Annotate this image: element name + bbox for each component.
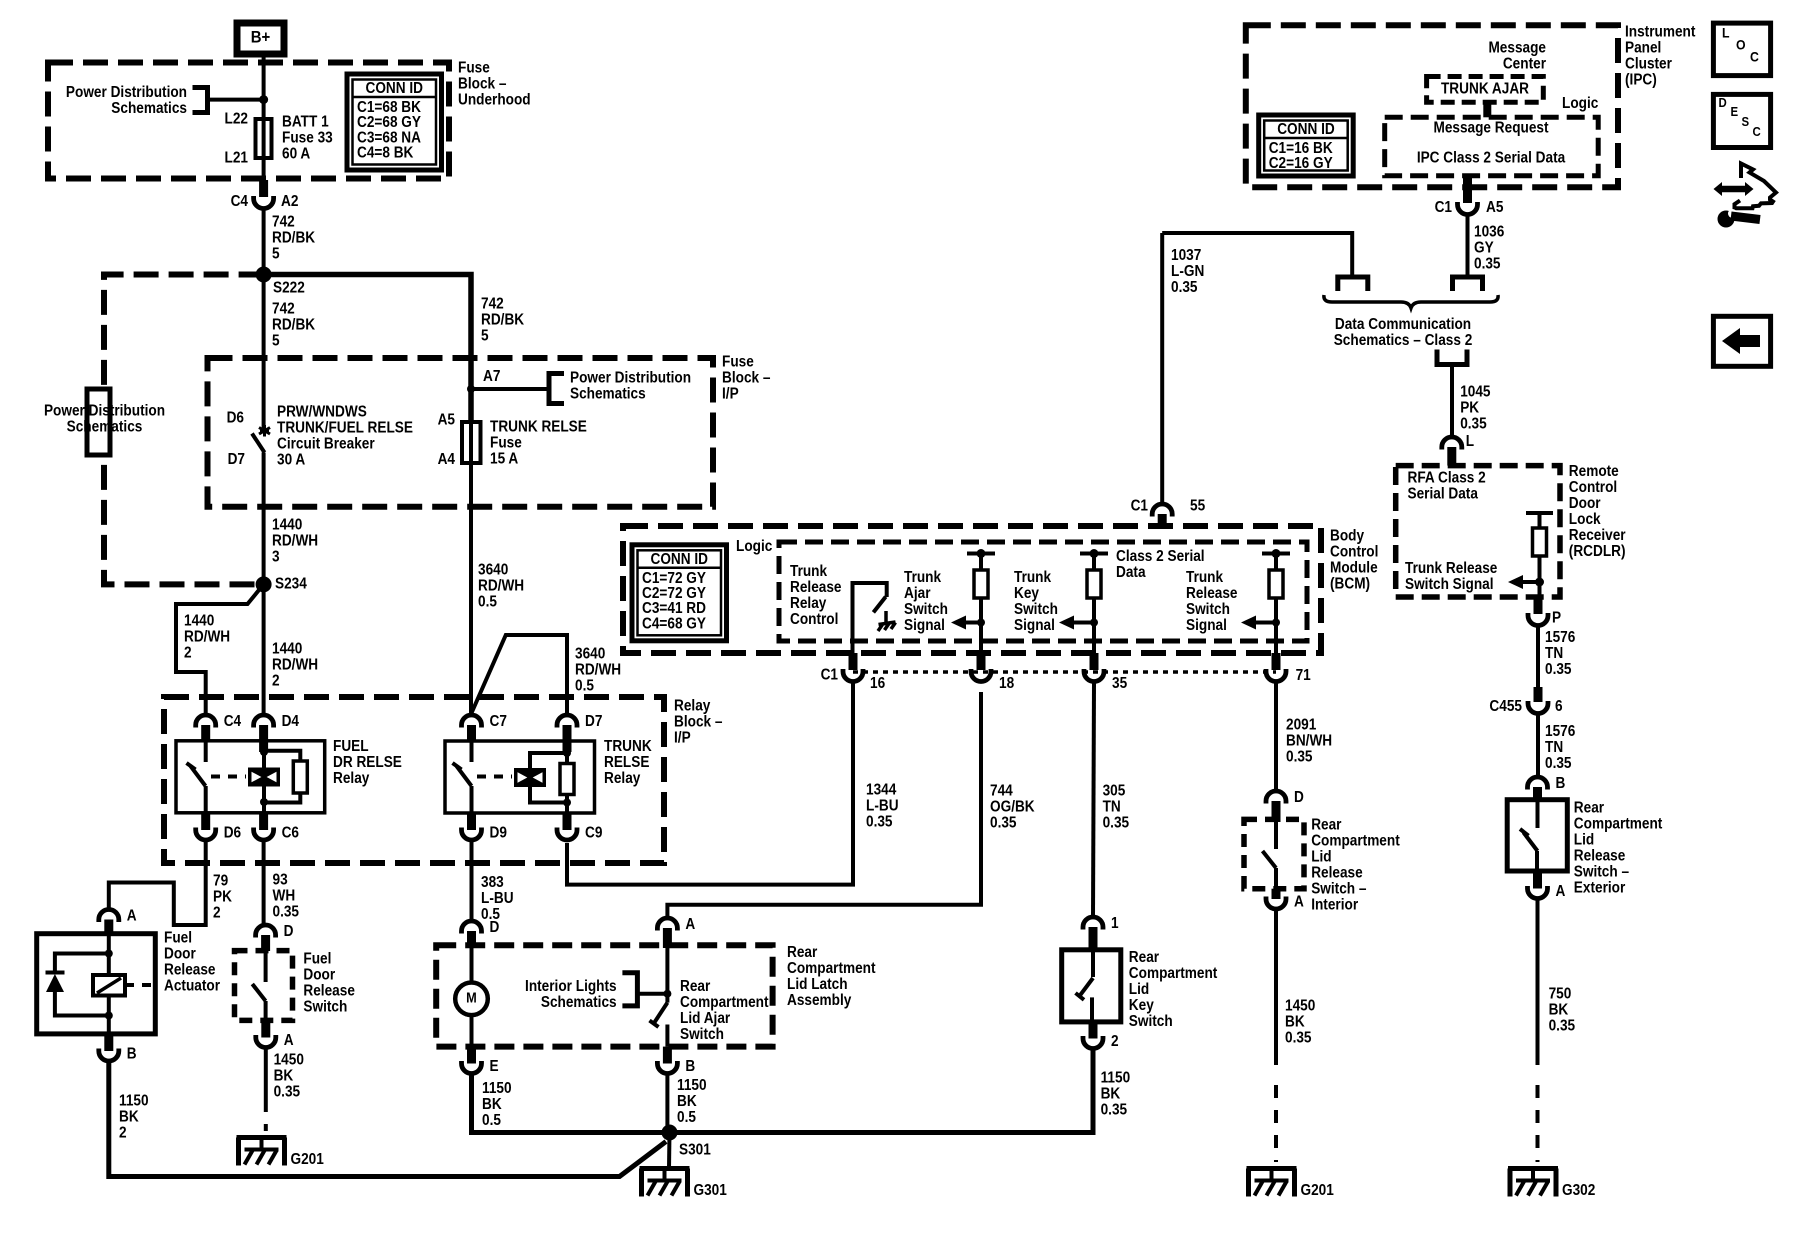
svg-text:CONN ID: CONN ID	[365, 80, 423, 97]
svg-text:L22: L22	[225, 111, 248, 128]
svg-text:B: B	[127, 1046, 137, 1063]
CONN ID table (underhood)	[347, 74, 442, 170]
wire 1576 TN to exterior switch	[1536, 715, 1540, 777]
svg-text:C6: C6	[282, 825, 299, 842]
svg-text:A: A	[685, 916, 695, 933]
svg-text:CONN ID: CONN ID	[1277, 121, 1335, 138]
svg-text:6: 6	[1555, 698, 1563, 715]
svg-text:B: B	[1556, 775, 1566, 792]
svg-text:B+: B+	[251, 29, 271, 47]
svg-text:S222: S222	[273, 280, 305, 297]
svg-text:S301: S301	[679, 1142, 711, 1159]
svg-text:IPC Class 2 Serial Data: IPC Class 2 Serial Data	[1417, 150, 1566, 167]
wire S234 to fuel relay D4	[262, 584, 266, 714]
power distribution schematics dashed outline (left)	[104, 275, 264, 585]
wire 1037 L-GN to data bus	[1162, 233, 1352, 276]
fuse block - underhood dashed box	[48, 63, 449, 179]
svg-text:C: C	[1750, 49, 1759, 65]
ground G201 (interior switch)	[1247, 1166, 1297, 1171]
class 2 bus T-bar pin 71	[1262, 552, 1290, 556]
svg-text:71: 71	[1296, 667, 1311, 684]
BCM top connector C1 pin 55	[1160, 233, 1164, 503]
wire A7 to power distribution bracket	[471, 387, 549, 391]
svg-text:A5: A5	[438, 412, 455, 429]
svg-text:E: E	[1731, 104, 1739, 119]
svg-text:D6: D6	[224, 825, 241, 842]
wire 93 WH relay C6 to switch D	[262, 841, 266, 924]
svg-text:C7: C7	[490, 713, 507, 730]
bracket power distribution schematics (I/P)	[549, 374, 564, 404]
IPC logic dashed box	[1385, 117, 1599, 175]
svg-text:G201: G201	[291, 1151, 324, 1168]
fuse BATT 1 Fuse 33 60 A	[262, 119, 266, 158]
connector C1 pins 16/18/35/71	[853, 670, 1276, 674]
wire 305 TN BCM 35 to key switch	[1093, 683, 1094, 916]
svg-text:M: M	[466, 990, 477, 1006]
svg-text:S234: S234	[275, 576, 308, 593]
remote control door lock receiver dashed box	[1396, 466, 1560, 597]
arrow trunk release switch signal	[1241, 616, 1256, 630]
CONN ID table (BCM)	[632, 545, 727, 641]
svg-text:A4: A4	[438, 451, 456, 468]
svg-text:2: 2	[1111, 1033, 1119, 1050]
svg-text:C2=16 GY: C2=16 GY	[1269, 155, 1333, 172]
RCDLR connector pin L	[1442, 437, 1462, 450]
wire 750 BK to G302	[1536, 900, 1540, 1066]
wire 79 PK relay D6 to actuator A	[109, 841, 206, 925]
off-page terminal (1036)	[1453, 277, 1483, 291]
ground G302	[1508, 1166, 1558, 1171]
relay block I/P dashed box	[164, 697, 664, 863]
svg-text:16: 16	[870, 675, 885, 692]
power terminal B+	[237, 23, 284, 54]
svg-text:35: 35	[1112, 675, 1127, 692]
fuse TRUNK RELSE 15 A	[469, 422, 473, 463]
wire 742 RD/BK to S222	[262, 210, 266, 275]
fuel door release switch	[256, 925, 276, 938]
fuse block I/P dashed box	[208, 358, 714, 507]
svg-text:G201: G201	[1301, 1182, 1334, 1199]
message center TRUNK AJAR box	[1427, 77, 1544, 103]
svg-text:Data CommunicationSchematics –: Data CommunicationSchematics – Class 2	[1334, 316, 1473, 349]
junction A7	[467, 385, 475, 393]
rear compartment lid release switch - interior	[1266, 791, 1286, 804]
wire branch to trunk relay D7	[472, 635, 568, 714]
svg-text:Message Request: Message Request	[1433, 120, 1548, 137]
svg-text:C4: C4	[231, 193, 249, 210]
svg-text:TRUNK AJAR: TRUNK AJAR	[1441, 81, 1529, 98]
svg-text:C9: C9	[585, 825, 602, 842]
instrument panel cluster dashed box	[1246, 25, 1618, 187]
svg-text:C1: C1	[1435, 199, 1452, 216]
splice S222	[256, 267, 272, 283]
latch ajar switch connector A	[657, 918, 677, 931]
RCDLR internal resistor	[1526, 511, 1553, 515]
wire 1576 TN to C455	[1536, 627, 1540, 688]
svg-text:A: A	[284, 1032, 294, 1049]
wire message center to logic	[1483, 102, 1491, 117]
svg-text:L: L	[1466, 433, 1474, 450]
icon back arrow box	[1713, 316, 1770, 366]
resistor pin 35	[1092, 554, 1096, 571]
svg-text:L: L	[1722, 25, 1730, 41]
wire 383 L-BU trunk relay D9 to latch D	[470, 841, 474, 920]
wire 1450 BK to G201 (interior)	[1274, 910, 1278, 1065]
brace data communication	[1324, 295, 1498, 308]
wire 1150 BK ajar switch B to S301	[665, 1075, 669, 1133]
svg-text:P: P	[1552, 610, 1561, 627]
svg-text:S: S	[1742, 114, 1750, 129]
svg-text:D9: D9	[490, 825, 507, 842]
icon LOC box	[1713, 23, 1770, 76]
svg-text:L21: L21	[225, 150, 248, 167]
icon DESC box	[1713, 94, 1770, 147]
wire 1440 RD/WH to S234	[262, 507, 266, 585]
wire S234 branch to fuel relay C4	[176, 584, 264, 714]
wire 2091 BN/WH BCM 71 to interior switch	[1274, 683, 1278, 790]
svg-text:A5: A5	[1486, 199, 1503, 216]
svg-text:A7: A7	[483, 368, 500, 385]
body control module dashed box	[623, 526, 1321, 653]
svg-text:D: D	[1719, 95, 1727, 110]
svg-text:G302: G302	[1562, 1182, 1595, 1199]
splice S234	[256, 576, 272, 592]
svg-text:D4: D4	[282, 713, 300, 730]
wire bracket to B+ feed	[208, 98, 264, 102]
svg-text:D: D	[284, 923, 294, 940]
off-page terminal (1037)	[1338, 277, 1368, 291]
svg-text:A: A	[127, 908, 137, 925]
splice S301	[662, 1125, 678, 1141]
fuel door release actuator	[99, 910, 119, 922]
class 2 bus T-bar pin 35	[1080, 552, 1108, 556]
svg-text:18: 18	[999, 675, 1014, 692]
svg-text:A: A	[1556, 883, 1566, 900]
arrow trunk key switch signal	[1059, 616, 1074, 630]
svg-text:Logic: Logic	[736, 538, 772, 555]
svg-text:C1: C1	[821, 667, 838, 684]
wire 744 OG/BK BCM 18 to latch A	[667, 692, 981, 917]
wire 1036 GY to data bus	[1466, 216, 1470, 278]
rear compartment lid key switch	[1083, 917, 1103, 930]
svg-text:A: A	[1294, 894, 1304, 911]
component on power distribution branch	[87, 389, 110, 455]
svg-text:D: D	[490, 919, 500, 936]
resistor pin 18	[979, 554, 983, 571]
latch assembly dashed box	[436, 945, 772, 1046]
svg-text:C455: C455	[1489, 698, 1522, 715]
svg-text:C1: C1	[1131, 498, 1148, 515]
wire B+ to fuse block	[262, 54, 266, 119]
svg-text:G301: G301	[694, 1182, 727, 1199]
connector C455 pin 6	[1534, 687, 1543, 702]
latch motor M	[470, 948, 474, 983]
svg-text:CONN ID: CONN ID	[650, 551, 708, 568]
class 2 bus T-bar pin 18	[967, 552, 995, 556]
wire 1450 BK to G201	[264, 1049, 268, 1113]
svg-text:O: O	[1736, 37, 1746, 53]
CONN ID table (IPC)	[1259, 115, 1354, 176]
wire 3640 RD/WH fuse to trunk relay C7	[469, 463, 473, 714]
ground G301	[640, 1166, 690, 1171]
svg-text:B: B	[685, 1058, 695, 1075]
RCDLR connector pin P	[1534, 597, 1543, 614]
wire fuse to connector C4/A2	[262, 158, 266, 180]
IPC connector C1 pin A5	[1463, 176, 1472, 203]
junction on B+ feed	[259, 95, 268, 104]
latch motor connector D	[462, 921, 482, 934]
svg-text:Trunk ReleaseSwitch Signal: Trunk ReleaseSwitch Signal	[1405, 560, 1497, 593]
svg-text:55: 55	[1190, 498, 1205, 515]
svg-text:A2: A2	[281, 193, 298, 210]
relay FUEL DR RELSE	[196, 715, 216, 728]
rear compartment lid release switch - exterior	[1528, 777, 1548, 789]
svg-text:C: C	[1753, 124, 1761, 139]
wire 1150 BK to S301	[109, 1062, 666, 1177]
svg-text:D: D	[1294, 789, 1304, 806]
wire 1150 BK key switch to S301	[670, 1050, 1094, 1133]
wire 1150 BK latch E to S301	[472, 1075, 670, 1133]
connector C4/A2	[259, 180, 268, 197]
svg-text:D7: D7	[228, 451, 245, 468]
resistor pin 71	[1274, 554, 1278, 571]
rear compartment lid ajar switch	[665, 948, 669, 1003]
wire 1045 PK to RCDLR	[1450, 365, 1454, 437]
svg-text:E: E	[490, 1058, 499, 1075]
off-page terminal to RCDLR	[1437, 350, 1467, 365]
bracket to power distribution schematics	[193, 88, 208, 113]
wire 1344 L-BU BCM 16 to trunk relay C9	[567, 683, 853, 885]
svg-text:D6: D6	[227, 410, 244, 427]
relay TRUNK RELSE	[462, 715, 482, 728]
svg-text:C4: C4	[224, 713, 242, 730]
wire S222 to trunk fuse feed	[264, 275, 471, 423]
wire S301 to G301	[667, 1133, 672, 1169]
ground G201 (fuel door switch)	[237, 1135, 287, 1140]
circuit breaker PRW/WNDWS 30 A	[262, 275, 266, 429]
svg-text:Logic: Logic	[1562, 95, 1598, 112]
svg-text:C4=8 BK: C4=8 BK	[357, 145, 414, 162]
arrow trunk ajar switch signal	[951, 616, 966, 630]
svg-text:RFA Class 2Serial Data: RFA Class 2Serial Data	[1408, 470, 1486, 503]
svg-text:C4=68 GY: C4=68 GY	[642, 616, 706, 633]
icon vehicle navigation	[1735, 164, 1777, 209]
arrow trunk release switch signal (RCDLR)	[1508, 575, 1523, 589]
svg-text:D7: D7	[585, 713, 602, 730]
BCM logic dashed box	[779, 542, 1307, 641]
svg-text:1: 1	[1111, 915, 1119, 932]
wire S301 bus to latch E branch	[476, 1130, 670, 1135]
